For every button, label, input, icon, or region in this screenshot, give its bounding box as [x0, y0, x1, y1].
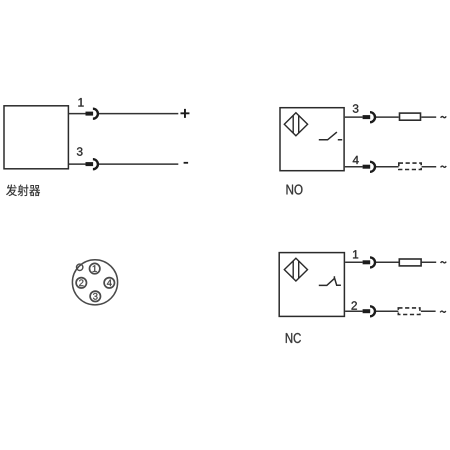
load resistor (dashed, NC) [398, 308, 420, 315]
label 发射器 (transmitter) [6, 184, 40, 196]
plug pin3 (NO) [363, 112, 375, 122]
connector keyway notch [77, 264, 83, 270]
label pin 1 (transmitter) [78, 98, 83, 106]
load resistor (solid, NC) [399, 259, 421, 266]
NO sensor box [280, 108, 344, 171]
plug pin3 (transmitter) [86, 159, 98, 169]
sensor diamond symbol (NO) [284, 113, 307, 136]
AC source tilde (NO wire 3) [441, 116, 447, 117]
label pin 2 (NC) [352, 301, 357, 309]
wire 1 (transmitter pin1 to +) [69, 113, 179, 115]
NC switch contact [319, 276, 341, 285]
wire 2 (NC) [345, 310, 436, 312]
wire 3 (NO) [345, 116, 436, 118]
connector pin 4 [104, 278, 114, 288]
label pin 3 (NO) [353, 104, 359, 112]
wire 3 (transmitter pin3 to -) [69, 163, 179, 165]
label pin 1 (NC) [353, 250, 358, 258]
plug pin1 (NC) [363, 257, 375, 267]
plug pin2 (NC) [363, 306, 375, 316]
transmitter box [4, 106, 68, 169]
AC source tilde (NC wire 2) [440, 311, 446, 312]
wire 4 (NO) [345, 166, 436, 168]
plug pin1 (transmitter) [86, 109, 98, 119]
NO switch contact [319, 132, 342, 140]
wire 1 (NC) [345, 261, 436, 263]
NC sensor box [279, 253, 344, 317]
plug pin4 (NO) [363, 162, 375, 172]
NO label [287, 184, 303, 194]
AC source tilde (NO wire 4) [441, 166, 447, 167]
connector pin 1 [90, 263, 100, 273]
NC label [286, 333, 301, 343]
connector pin 3 [90, 291, 100, 301]
M12 connector face (outer circle) [72, 260, 117, 305]
AC source tilde (NC wire 1) [441, 262, 447, 263]
sensor diamond symbol (NC) [284, 258, 307, 281]
label pin 4 (NO) [353, 156, 359, 164]
connector pin 2 [76, 278, 86, 288]
label pin 3 (transmitter) [77, 147, 83, 155]
load resistor (dashed, NO) [399, 163, 421, 169]
load resistor (solid, NO) [400, 113, 421, 120]
+ terminal [181, 109, 189, 117]
- terminal [184, 162, 189, 164]
